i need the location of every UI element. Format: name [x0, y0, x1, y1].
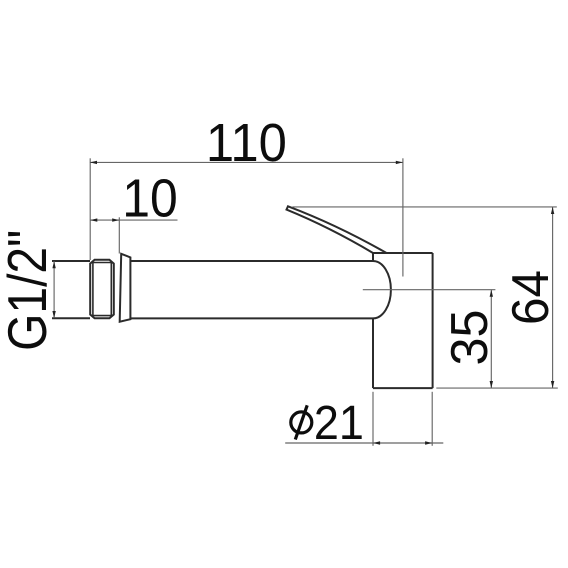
svg-text:21: 21	[314, 397, 364, 450]
spout tube bottom	[130, 317, 373, 319]
spout end arc	[373, 261, 391, 318]
arrow 110 right	[396, 161, 403, 164]
dim phi21 right extension	[431, 392, 433, 446]
arrow 64 bottom	[551, 381, 554, 388]
spout tube top	[130, 260, 373, 262]
svg-text:35: 35	[440, 310, 498, 366]
label phi symbol	[291, 405, 312, 439]
inlet stub top wall	[52, 260, 90, 262]
dim phi21 line	[285, 442, 443, 444]
arrow 110 left	[90, 161, 97, 164]
body right edge	[432, 253, 434, 388]
arrow G12 top	[52, 261, 55, 268]
arrow 64 top	[551, 207, 554, 214]
body bottom edge	[373, 387, 433, 389]
dim 110 line	[90, 161, 403, 163]
body left edge lower segment	[372, 318, 374, 388]
dim 64/35 bottom extension	[436, 387, 558, 389]
inlet stub bottom wall	[52, 317, 90, 319]
dim G1/2 line	[53, 261, 55, 318]
arrow 35 bottom	[490, 381, 493, 388]
body left edge upper segment	[372, 253, 374, 261]
dim phi21 left extension	[372, 392, 374, 446]
handle lever	[287, 206, 387, 253]
body top edge	[373, 252, 433, 254]
dim 110 left extension	[89, 158, 91, 260]
dim 10 extension	[118, 217, 120, 253]
dim 35 line	[490, 290, 492, 388]
dim 35 top extension	[363, 289, 496, 291]
svg-text:110: 110	[206, 114, 287, 173]
arrow 10 left	[90, 218, 97, 221]
dim 10 line	[90, 219, 177, 221]
arrow phi21 right	[425, 441, 432, 444]
thread body outer (chamfered)	[90, 260, 114, 319]
cone flange	[120, 254, 131, 322]
arrow 10 right	[112, 218, 119, 221]
arrow G12 bottom	[52, 311, 55, 318]
thread root inner rect	[93, 263, 111, 316]
svg-text:G1/2": G1/2"	[0, 230, 58, 351]
dim 64 line	[552, 207, 554, 388]
svg-text:64: 64	[501, 270, 559, 325]
svg-text:10: 10	[122, 169, 178, 228]
dim 110 right extension	[402, 158, 404, 276]
arrow 35 top	[490, 290, 493, 297]
dim 64 top extension	[292, 206, 557, 208]
arrow phi21 left	[373, 441, 380, 444]
